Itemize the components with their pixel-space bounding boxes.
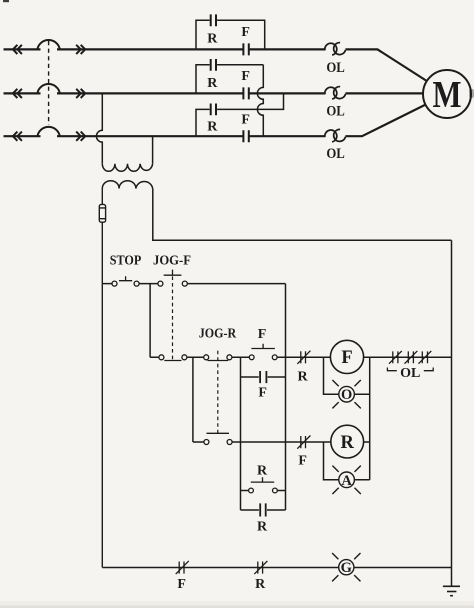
- wire L1 middle segment: [57, 48, 243, 50]
- wire secondary right lead to right rail: [153, 189, 452, 241]
- disconnect plug pole 2 (chevrons and arc): [13, 84, 85, 98]
- wire R holding branch upper: [241, 490, 286, 492]
- wire F holding branch: [241, 376, 286, 378]
- pushbutton JOG-R upper contact (NC, bar below): [204, 355, 232, 361]
- rung 2 wire segments: [150, 356, 451, 358]
- wire vertical x240.5 rung2 to R holding branches: [240, 357, 242, 510]
- wire vertical junction x285.5 rung1 down to R holding branch: [285, 284, 287, 510]
- pushbutton JOG-F lower contact (NC, bar below): [159, 355, 187, 361]
- svg-text:R: R: [257, 519, 268, 534]
- overload heater OL3: [325, 129, 346, 142]
- dashed linkage of disconnect poles: [48, 41, 50, 125]
- contact R reverse pole 3: [211, 104, 216, 116]
- svg-text:F: F: [258, 327, 267, 342]
- scan artifact right edge smudge near motor: [469, 89, 474, 98]
- pilot lamp G: [332, 553, 360, 581]
- contact F normally closed interlock on R rung: [297, 436, 310, 449]
- wire rung1 to rung2 at node after STOP: [149, 284, 151, 358]
- wire R holding branch lower: [241, 509, 286, 511]
- svg-text:R: R: [207, 120, 218, 135]
- svg-text:M: M: [433, 74, 462, 116]
- wire L1 after F: [249, 48, 326, 50]
- contact R normally closed interlock: [297, 351, 310, 364]
- contact R holding lower (capacitor style): [260, 503, 266, 516]
- svg-text:F: F: [258, 386, 267, 401]
- svg-text:F: F: [241, 25, 250, 40]
- wire O lamp branch: [324, 357, 370, 394]
- svg-text:OL: OL: [326, 104, 345, 120]
- contact F normally closed on lamp rung: [176, 561, 189, 574]
- svg-text:R: R: [207, 76, 218, 91]
- pilot lamp O: [332, 380, 360, 408]
- contact F holding (NO with bar above): [249, 344, 277, 360]
- contact F forward pole 3: [243, 130, 248, 142]
- wire vertical x192.9 rung2 down to rung3: [192, 357, 194, 442]
- overload contacts OL (three in series): [389, 351, 431, 364]
- wire secondary left lead to fuse: [101, 189, 103, 205]
- svg-text:F: F: [241, 113, 250, 128]
- pushbutton JOG-R lower contact (NO): [204, 433, 232, 444]
- svg-text:O: O: [341, 387, 352, 403]
- rung 1 wire segments: [102, 283, 285, 285]
- contact F holding lower (capacitor style): [260, 371, 266, 383]
- svg-text:OL: OL: [400, 366, 420, 381]
- wire L2 after F: [249, 92, 326, 94]
- wire A lamp branch: [324, 442, 370, 480]
- svg-text:R: R: [257, 463, 268, 478]
- fuse FU: [99, 204, 105, 222]
- wire L2 to motor: [345, 92, 423, 94]
- svg-text:F: F: [241, 69, 250, 84]
- wire L3 after F: [249, 135, 326, 137]
- overload heater OL2: [325, 87, 346, 100]
- contact R normally closed on lamp rung: [254, 561, 267, 574]
- svg-text:JOG-R: JOG-R: [199, 327, 237, 342]
- svg-text:STOP: STOP: [110, 254, 142, 269]
- wire L3 to motor: [345, 105, 425, 137]
- transformer T1 primary winding: [102, 164, 152, 172]
- svg-text:F: F: [298, 454, 307, 469]
- dashed operator link JOG-R: [217, 351, 219, 434]
- pushbutton JOG-F upper contact (NO): [158, 270, 187, 287]
- wire L3 middle segment: [57, 135, 243, 137]
- branch wire R1: [196, 20, 265, 49]
- svg-text:R: R: [298, 370, 309, 385]
- scan artifact bottom edge band: [0, 601, 474, 608]
- branch wire R2 with hops over L2 and R3 branch: [196, 65, 263, 136]
- overload heater OL1: [325, 43, 346, 56]
- svg-text:OL: OL: [326, 146, 345, 162]
- disconnect plug pole 1 (chevrons and arc): [13, 40, 85, 54]
- svg-text:JOG-F: JOG-F: [153, 254, 191, 269]
- svg-text:R: R: [255, 577, 266, 592]
- contact R holding (NO with bar above): [249, 477, 278, 493]
- wire L3 left segment: [4, 135, 41, 137]
- svg-text:G: G: [341, 560, 352, 576]
- svg-text:A: A: [341, 473, 352, 489]
- disconnect plug pole 3 (chevrons and arc): [13, 127, 85, 141]
- left rail of control circuit: [101, 222, 103, 567]
- wire L2 middle segment: [57, 92, 243, 94]
- wire L1 left segment: [4, 48, 41, 50]
- svg-text:R: R: [341, 433, 355, 453]
- bottom rung wire segments: [102, 567, 451, 569]
- contact F forward pole 1: [243, 43, 248, 55]
- contact R reverse pole 1: [211, 14, 216, 26]
- coil F: [330, 340, 363, 373]
- ground symbol: [443, 586, 460, 595]
- wire L2 left segment: [4, 92, 41, 94]
- contact R reverse pole 2: [211, 59, 216, 71]
- branch wire R3 crossing up to L2: [196, 93, 284, 136]
- pilot lamp A: [332, 466, 360, 494]
- pushbutton STOP (NC): [112, 276, 139, 286]
- transformer T1 secondary winding: [102, 181, 152, 189]
- scan artifact top-left tick: [3, 0, 9, 2]
- coil R: [331, 425, 364, 458]
- rung 3 wire segments: [193, 441, 370, 443]
- svg-text:F: F: [341, 348, 352, 368]
- contact F forward pole 2: [243, 87, 248, 99]
- dashed operator link JOG-F: [172, 276, 174, 360]
- wire vertical x369.7 joining F rung, R coil and A branch: [369, 357, 371, 480]
- wire transformer primary tap from L3: [152, 136, 154, 164]
- svg-text:OL: OL: [326, 60, 345, 76]
- right rail of control circuit: [451, 240, 453, 586]
- wire transformer primary tap from L2 with hop over L3: [96, 93, 102, 163]
- motor M: [423, 70, 471, 118]
- wire L1 to motor: [345, 49, 426, 81]
- svg-text:F: F: [177, 577, 186, 592]
- svg-text:R: R: [207, 32, 218, 47]
